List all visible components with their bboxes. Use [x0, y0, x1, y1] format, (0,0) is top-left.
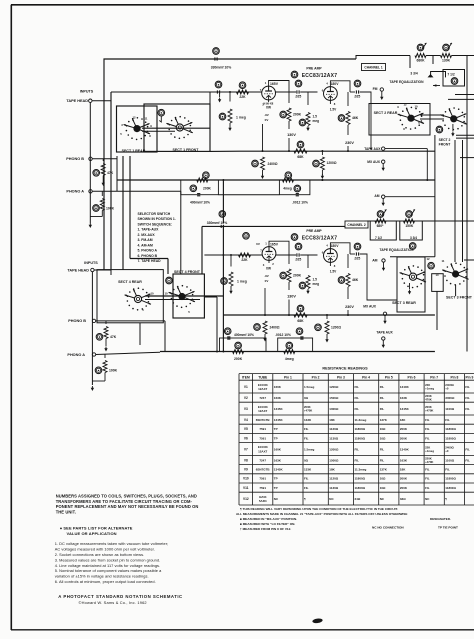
capacitor .025 coupling 2 ch1 [350, 91, 355, 93]
svg-text:470K: 470K [425, 398, 432, 402]
svg-text:1 meg: 1 meg [237, 279, 247, 283]
svg-text:TP: TP [274, 486, 278, 490]
wire cathode V7B [329, 262, 331, 266]
svg-text:5. Nominal tolerance of comp: 5. Nominal tolerance of component values… [55, 568, 162, 573]
svg-text:NC NO CONNECTION: NC NO CONNECTION [372, 526, 404, 530]
rotary switch SECT 1 REAR [147, 131, 149, 133]
svg-text:3. Measured values are from: 3. Measured values are from socket pin t… [55, 557, 161, 562]
svg-text:1500Ω: 1500Ω [329, 396, 339, 400]
svg-text:V4: V4 [244, 418, 248, 422]
wire to eq pots ch2 [367, 220, 474, 222]
svg-text:330mmf 10%: 330mmf 10% [211, 65, 232, 69]
switch housing SECT 1 REAR [117, 106, 158, 152]
svg-text:165V: 165V [270, 82, 279, 86]
ground arrow 1200 to bus ch1 [321, 174, 323, 177]
resistor 1.5 meg ch1 [307, 92, 309, 105]
resistor 100K ch2 [104, 355, 106, 359]
svg-text:V9: V9 [244, 468, 248, 472]
ground arrow 2400 to bus ch1 [262, 174, 264, 177]
svg-text:11800Ω: 11800Ω [445, 436, 456, 440]
junction dots ch2 buses [264, 314, 266, 316]
svg-text:1100Ω: 1100Ω [445, 458, 455, 462]
label CHANNEL 2 box [345, 221, 368, 228]
svg-text:PHONO A: PHONO A [66, 190, 84, 194]
svg-text:10Ω: 10Ω [380, 477, 386, 481]
svg-text:150K: 150K [405, 224, 414, 228]
svg-text:200K: 200K [400, 486, 408, 490]
loop .0012 ch2 [278, 338, 313, 352]
svg-text:.0012 10%: .0012 10% [275, 333, 291, 337]
svg-text:meg: meg [313, 282, 320, 286]
wire pots down ch1 [409, 56, 411, 69]
svg-text:1345K: 1345K [274, 468, 284, 472]
svg-text:130V: 130V [287, 295, 296, 299]
svg-text:■ MEASURED IN “MX-AUX” POSI: ■ MEASURED IN “MX-AUX” POSITION. [240, 517, 297, 521]
rotary switch SECT 2 FRONT [463, 121, 465, 123]
wire bus left vertical 3 [129, 156, 131, 259]
resistor 22K ch1 [237, 90, 249, 94]
svg-text:FIL: FIL [355, 396, 360, 400]
svg-text:3. FM-AM: 3. FM-AM [138, 238, 153, 242]
svg-text:6. PHONO B: 6. PHONO B [138, 254, 158, 258]
svg-text:ECC83/12AX7: ECC83/12AX7 [302, 236, 338, 242]
svg-text:1. DC voltage measurements t: 1. DC voltage measurements taken with va… [55, 541, 169, 546]
svg-text:Pin 6: Pin 6 [408, 375, 416, 379]
svg-text:400mmf 10%: 400mmf 10% [234, 333, 254, 337]
svg-text:12: 12 [426, 257, 430, 261]
resistor 47K ch2 [105, 321, 107, 324]
wire sect4 interconnect [145, 295, 223, 297]
svg-text:10Ω: 10Ω [380, 486, 386, 490]
svg-text:6SN7GTB: 6SN7GTB [256, 468, 271, 472]
svg-text:100K: 100K [109, 369, 118, 373]
wire phono b ch2 [96, 320, 165, 322]
ground below AM ch2 [383, 262, 385, 266]
svg-text:TAPE AUX: TAPE AUX [364, 147, 381, 151]
ground below SECT 2 FRONT [452, 124, 454, 131]
wire plate V1A to 200K [269, 81, 289, 104]
ground below MX AUX ch1 [382, 163, 384, 166]
resistor 2400 ohm ch2 [263, 321, 267, 334]
wire tape aux ch1 [385, 148, 427, 150]
svg-text:TAPE AUX: TAPE AUX [376, 331, 393, 335]
ground arrow 2400 ch2 [264, 334, 266, 337]
wire stub to right edge sect3 [464, 259, 474, 261]
svg-text:10Ω: 10Ω [380, 436, 386, 440]
svg-text:FIL: FIL [425, 436, 430, 440]
svg-text:6SN7GTB: 6SN7GTB [256, 418, 271, 422]
pot 680K ch1 [415, 54, 426, 58]
wire plate V1B [330, 81, 350, 92]
svg-text:11: 11 [145, 116, 148, 120]
svg-text:0V: 0V [256, 242, 260, 246]
wire phono a ch1 [92, 190, 181, 192]
svg-text:Pin 5: Pin 5 [385, 375, 393, 379]
capacitor .025 coupling 2 ch2 [350, 253, 355, 255]
capacitor C15 330mmf in top line [214, 57, 216, 60]
svg-text:5AR4: 5AR4 [259, 499, 267, 503]
svg-text:1. TAPE-AUX: 1. TAPE-AUX [138, 228, 160, 232]
wire ground bus ch2 [160, 351, 435, 353]
svg-text:1200Ω: 1200Ω [329, 447, 339, 451]
svg-text:+470K: +470K [425, 409, 433, 413]
svg-text:200K: 200K [293, 113, 302, 117]
wire 100K bottom return ch1 [90, 216, 102, 218]
svg-text:12: 12 [132, 116, 136, 120]
svg-text:TAPE HEAD: TAPE HEAD [67, 269, 89, 273]
svg-text:7591: 7591 [259, 486, 266, 490]
svg-text:FIL: FIL [465, 458, 470, 462]
svg-text:.025: .025 [354, 95, 361, 99]
svg-text:V10: V10 [243, 477, 249, 481]
wire below 100K ch1 [101, 211, 103, 217]
svg-text:PRE AMP: PRE AMP [306, 229, 322, 233]
designator M2 ch1 [158, 109, 165, 116]
svg-text:4meg: 4meg [283, 187, 292, 191]
svg-text:1500Ω: 1500Ω [329, 458, 339, 462]
wire right vertical x467 [466, 56, 468, 352]
svg-text:3000Ω: 3000Ω [445, 396, 455, 400]
svg-text:TRANSFORMERS ARE TO FACILITATE: TRANSFORMERS ARE TO FACILITATE CIRCUIT T… [56, 499, 193, 504]
svg-text:12AX7: 12AX7 [258, 387, 268, 391]
svg-text:11: 11 [442, 259, 445, 263]
label 230V ch2 [347, 287, 349, 299]
speed bracket ch1 [431, 72, 446, 78]
svg-text:SWITCH SEQUENCE:: SWITCH SEQUENCE: [138, 222, 172, 226]
svg-text:0Ω: 0Ω [304, 396, 309, 400]
svg-text:SECT 4 FRONT: SECT 4 FRONT [174, 270, 201, 274]
ground input shield ch1 [89, 223, 91, 226]
svg-text:4. AM-AM: 4. AM-AM [138, 243, 153, 247]
svg-text:2. MX-AUX: 2. MX-AUX [138, 233, 156, 237]
label CHANNEL 1 box [362, 64, 386, 71]
svg-text:11800Ω: 11800Ω [355, 436, 366, 440]
svg-text:● SEE PARTS LIST FOR ALTER: ● SEE PARTS LIST FOR ALTERNATE [60, 526, 133, 531]
svg-text:68K: 68K [297, 155, 304, 159]
resistor 47K ch1 [102, 159, 104, 161]
svg-text:68K: 68K [297, 319, 304, 323]
svg-text:2400Ω: 2400Ω [268, 162, 278, 166]
svg-text:330mmf 10%: 330mmf 10% [207, 221, 228, 225]
svg-text:SECT 3 FRONT: SECT 3 FRONT [446, 295, 473, 299]
wire below 100K ch2 [104, 373, 106, 382]
svg-text:46K: 46K [352, 278, 359, 282]
wire right vertical x462 [462, 140, 464, 262]
svg-text:18K: 18K [329, 418, 335, 422]
svg-text:1345K: 1345K [400, 407, 410, 411]
ground below TAPE AUX ch2 [382, 340, 384, 343]
svg-text:130K: 130K [442, 58, 451, 62]
ground below AM ch1 [382, 198, 384, 201]
wire sect4 front feed from rail [180, 195, 182, 274]
switch housing SECT 3 REAR [397, 257, 425, 312]
svg-text:4. Line voltage maintained a: 4. Line voltage maintained at 117 volts … [55, 563, 161, 568]
svg-text:Pin 7: Pin 7 [430, 375, 438, 379]
svg-text:24Ω: 24Ω [355, 497, 361, 501]
svg-text:TAPE EQUALIZATION: TAPE EQUALIZATION [380, 248, 415, 252]
svg-text:11800Ω: 11800Ω [355, 477, 366, 481]
op-amp triode V1B [324, 87, 338, 101]
svg-text:TP TIE POINT: TP TIE POINT [438, 526, 458, 530]
svg-text:Pin 8: Pin 8 [450, 375, 458, 379]
ground input shield ch2 [91, 386, 93, 389]
wire: channel 1 grid line [111, 91, 262, 93]
svg-text:V8: V8 [244, 458, 248, 462]
svg-text:18K: 18K [400, 418, 406, 422]
svg-text:V12: V12 [243, 497, 249, 501]
ground below FM terminal [381, 91, 383, 95]
svg-text:V3: V3 [244, 407, 248, 411]
svg-text:0V: 0V [265, 279, 269, 283]
svg-text:680*: 680* [377, 224, 385, 228]
wire output ch1 to switch [360, 92, 371, 148]
tube designator V1 [291, 71, 298, 78]
svg-text:SECT 1 FRONT: SECT 1 FRONT [173, 148, 200, 152]
svg-text:1200Ω: 1200Ω [331, 326, 341, 330]
svg-text:1000Ω: 1000Ω [329, 407, 339, 411]
svg-text:.025: .025 [295, 95, 302, 99]
svg-text:12AX7: 12AX7 [258, 409, 268, 413]
svg-text:200K: 200K [203, 187, 212, 191]
pot 150K ch2 [404, 219, 415, 223]
svg-text:4meg: 4meg [285, 357, 294, 361]
label 130V node ch2 [288, 282, 290, 290]
svg-text:400mmf 10%: 400mmf 10% [190, 200, 210, 204]
svg-text:+470K: +470K [304, 409, 312, 413]
ground below 47K ch1 [102, 181, 104, 184]
svg-text:PHONO B: PHONO B [66, 157, 84, 161]
svg-text:AM: AM [374, 194, 379, 198]
svg-text:FIL: FIL [304, 427, 309, 431]
svg-text:PRE AMP: PRE AMP [306, 67, 322, 71]
wire input shield vertical ch1 [89, 102, 91, 216]
svg-text:FIL: FIL [465, 385, 470, 389]
svg-text:SECT 2 REAR: SECT 2 REAR [374, 111, 398, 115]
svg-text:ITEM: ITEM [242, 375, 250, 379]
ground below 1 meg ch1 [229, 123, 231, 126]
svg-text:FIL: FIL [425, 477, 430, 481]
designator M2 ch2 [166, 277, 173, 284]
wire am stub [385, 196, 435, 198]
label 130V node ch1 [288, 121, 290, 129]
svg-text:FIL: FIL [425, 418, 430, 422]
svg-text:230V: 230V [345, 305, 354, 309]
svg-text:PHONO B: PHONO B [68, 319, 86, 323]
svg-text:11800Ω: 11800Ω [445, 477, 456, 481]
svg-text:FM: FM [373, 87, 378, 91]
svg-text:1200Ω: 1200Ω [329, 385, 339, 389]
svg-text:163K: 163K [274, 458, 282, 462]
svg-text:MX AUX: MX AUX [363, 305, 377, 309]
wire right vertical x455 [454, 140, 456, 262]
svg-text:FIL: FIL [445, 418, 450, 422]
resistor 1 meg ch2 [230, 255, 232, 267]
svg-text:THE UNIT.: THE UNIT. [56, 510, 76, 515]
svg-text:meg: meg [313, 119, 320, 123]
svg-text:3 3/4: 3 3/4 [410, 72, 417, 76]
svg-text:V7: V7 [244, 447, 248, 451]
svg-text:Pin 3: Pin 3 [337, 375, 345, 379]
op-amp triode V7B [324, 249, 338, 263]
op-amp triode V7A [262, 247, 276, 261]
svg-text:SECT 4 REAR: SECT 4 REAR [118, 280, 142, 284]
svg-text:+0: +0 [445, 387, 449, 391]
svg-text:CHANNEL 2: CHANNEL 2 [347, 223, 365, 227]
svg-text:1100Ω: 1100Ω [445, 407, 455, 411]
wire phono a ch2 [96, 352, 160, 354]
svg-text:Pin 9: Pin 9 [465, 375, 473, 379]
wire cathode V1A down [268, 100, 270, 102]
wire bottom rail between loops ch1 [218, 194, 279, 196]
svg-text:FIL: FIL [355, 447, 360, 451]
svg-text:47K: 47K [110, 335, 117, 339]
svg-text:FIL: FIL [465, 407, 470, 411]
svg-text:22K: 22K [241, 258, 248, 262]
svg-text:.025: .025 [295, 258, 302, 262]
designator M4 ch1 [451, 78, 458, 85]
svg-text:200K: 200K [234, 357, 243, 361]
svg-text:FIL: FIL [355, 407, 360, 411]
wire ground bus ch1 [117, 179, 435, 181]
svg-text:† MEASURED FROM PIN 8 OF V1: † MEASURED FROM PIN 8 OF V12. [240, 527, 291, 531]
svg-text:2400Ω: 2400Ω [270, 326, 280, 330]
svg-text:137K: 137K [380, 468, 388, 472]
svg-text:18K: 18K [400, 468, 406, 472]
wire cathode V1B [329, 100, 331, 104]
resistor 22K ch2 [239, 253, 251, 257]
svg-text:XW: XW [266, 267, 271, 271]
wire: channel 1 top feedback line [104, 59, 356, 270]
svg-text:+0: +0 [445, 449, 449, 453]
svg-text:FRONT: FRONT [439, 142, 452, 146]
svg-text:130V: 130V [287, 133, 296, 137]
resistor 200K ch1 [287, 108, 291, 121]
svg-text:1.5V: 1.5V [330, 270, 337, 274]
wire sect1 link bars [142, 127, 210, 129]
wire sect2 interconnect [420, 114, 444, 116]
speed boxes ch2 [370, 221, 396, 240]
rotary switch SECT 3 REAR [423, 279, 425, 281]
svg-text:ALL MEASUREMENTS MADE IN CHANN: ALL MEASUREMENTS MADE IN CHANNEL #1 “TAP… [236, 512, 407, 516]
wire: channel 2 grid line [204, 254, 262, 256]
svg-text:230V: 230V [345, 141, 354, 145]
svg-text:AC voltages measured with 1000: AC voltages measured with 1000 ohm per v… [55, 547, 155, 552]
svg-text:11800Ω: 11800Ω [445, 427, 456, 431]
svg-text:Pin 1: Pin 1 [284, 375, 292, 379]
svg-text:200K: 200K [400, 436, 408, 440]
wire tape head ch2 [94, 269, 111, 271]
svg-text:0V: 0V [265, 118, 269, 122]
svg-text:+1meg: +1meg [425, 449, 434, 453]
svg-text:165V: 165V [270, 242, 279, 246]
svg-text:10Ω: 10Ω [380, 427, 386, 431]
ground below 1.5 meg ch1 [307, 126, 309, 129]
box around 7 1/2 ch1 [443, 70, 465, 87]
svg-text:V11: V11 [243, 486, 249, 490]
switch housing SECT 4 FRONT [173, 274, 204, 318]
wire sect3 front down [455, 285, 457, 296]
svg-text:1.5meg: 1.5meg [304, 447, 315, 451]
svg-text:FIL: FIL [380, 447, 385, 451]
svg-text:SELECTOR SWITCH: SELECTOR SWITCH [138, 212, 171, 216]
svg-text:160K: 160K [274, 447, 282, 451]
svg-text:1120Ω: 1120Ω [329, 427, 339, 431]
svg-text:TAPE EQUALIZATION: TAPE EQUALIZATION [390, 80, 425, 84]
resistor 46K ch2 [347, 254, 349, 268]
svg-text:NUMBERS ASSIGNED TO COILS, SWI: NUMBERS ASSIGNED TO COILS, SWITCHES, PLU… [56, 494, 197, 499]
svg-text:V1: V1 [244, 385, 248, 389]
svg-text:10: 10 [150, 292, 154, 296]
svg-text:10: 10 [414, 105, 418, 109]
designator M3 ch2 [428, 262, 435, 269]
svg-text:FIL: FIL [355, 458, 360, 462]
svg-text:ECC83/12AX7: ECC83/12AX7 [302, 73, 338, 79]
svg-text:11800Ω: 11800Ω [445, 486, 456, 490]
ground below 1.5 meg ch2 [307, 289, 309, 292]
designator M4 ch2 [409, 243, 416, 250]
svg-text:.025: .025 [354, 257, 361, 261]
svg-text:1340K: 1340K [400, 447, 410, 451]
ground below 1 meg ch2 [230, 286, 232, 289]
svg-text:3 3/4: 3 3/4 [410, 236, 417, 240]
svg-text:1130Ω: 1130Ω [329, 436, 339, 440]
rotary switch SECT 3 FRONT [465, 276, 467, 278]
loop 4meg/.0012 ch1 [279, 180, 310, 195]
svg-text:163K: 163K [400, 396, 408, 400]
svg-text:■ MEASURED WITH “LO FILTER”: ■ MEASURED WITH “LO FILTER” ON. [240, 522, 295, 526]
wire output ch2 [360, 254, 397, 300]
svg-text:10: 10 [164, 292, 168, 296]
wire sect4 bottom stub [139, 323, 141, 345]
wire right vertical x435 [434, 135, 436, 257]
svg-text:AM: AM [372, 259, 377, 263]
svg-text:.9V: .9V [264, 113, 269, 117]
svg-text:7 1/2: 7 1/2 [375, 236, 382, 240]
ground below MX AUX ch2 [384, 316, 386, 320]
svg-text:TP: TP [274, 427, 278, 431]
svg-text:11800Ω: 11800Ω [355, 427, 366, 431]
svg-text:CHANNEL 1: CHANNEL 1 [364, 66, 382, 70]
resistor 1200 ohm ch2 [326, 315, 328, 319]
wire to tape equalization pots ch1 [356, 56, 410, 60]
svg-text:TAPE HEAD: TAPE HEAD [66, 99, 88, 103]
svg-text:FIL: FIL [304, 486, 309, 490]
svg-text:133K: 133K [304, 468, 312, 472]
wire sect3 top link [390, 256, 435, 258]
switch housing SECT 4 REAR [97, 270, 163, 323]
svg-text:12: 12 [403, 103, 407, 107]
wire plate V7A to 200K [269, 241, 289, 264]
svg-text:163K: 163K [400, 458, 408, 462]
svg-text:FIL: FIL [380, 407, 385, 411]
resistor 46K ch1 [347, 92, 349, 106]
svg-text:Pin 2: Pin 2 [312, 375, 320, 379]
svg-text:1130Ω: 1130Ω [329, 486, 339, 490]
pot 130K ch1 [441, 54, 452, 58]
svg-text:2. Socket connections are sh: 2. Socket connections are shown as botto… [55, 552, 145, 557]
svg-text:46K: 46K [352, 116, 359, 120]
svg-text:XW: XW [266, 106, 271, 110]
svg-text:.0012 10%: .0012 10% [292, 200, 308, 204]
wire bus left vertical 2 [122, 156, 124, 270]
svg-text:.9V: .9V [264, 274, 269, 278]
designator above bus ch1 left [203, 172, 210, 179]
svg-text:11.3meg: 11.3meg [355, 418, 367, 422]
svg-text:22K: 22K [239, 95, 246, 99]
svg-text:FIL: FIL [380, 396, 385, 400]
svg-text:1120Ω: 1120Ω [329, 477, 339, 481]
svg-text:A PHOTOFACT STANDARD NOTATI: A PHOTOFACT STANDARD NOTATION SCHEMATIC [58, 594, 182, 599]
